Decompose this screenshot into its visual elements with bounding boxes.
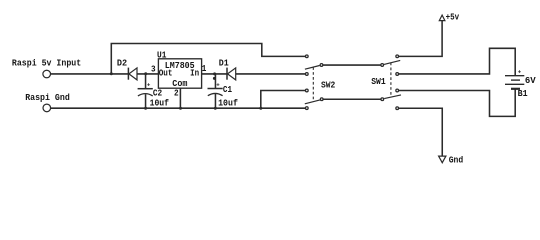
SW2 throw contact B1 bbox=[305, 89, 308, 92]
wire ground rail bbox=[51, 107, 305, 109]
switch SW1 bbox=[381, 55, 401, 110]
wire U1 In to D1 bbox=[202, 73, 227, 75]
switch SW2 bbox=[305, 55, 323, 109]
battery B1 bbox=[505, 76, 524, 89]
svg-text:10uf: 10uf bbox=[150, 97, 170, 108]
svg-text:C1: C1 bbox=[223, 84, 232, 95]
node C1 top junction bbox=[213, 72, 216, 75]
wire D1 to SW2 throw A2 bbox=[236, 73, 306, 75]
terminal J2 Raspi Gnd bbox=[43, 104, 51, 112]
SW2 lever A bbox=[305, 66, 320, 70]
svg-text:+5v: +5v bbox=[446, 12, 460, 23]
wire SW2 common A to SW1 common A bbox=[323, 64, 380, 66]
node rail branch junction bbox=[259, 107, 262, 110]
node C1 rail junction bbox=[214, 107, 217, 110]
svg-text:2: 2 bbox=[174, 87, 179, 98]
wire SW1 throw B2 to Gnd bbox=[399, 108, 442, 156]
svg-text:B1: B1 bbox=[518, 88, 528, 99]
diode D1 bbox=[227, 68, 236, 80]
wire SW2 common B to SW1 common B bbox=[323, 98, 380, 100]
capacitor C1 bbox=[208, 74, 223, 108]
svg-text:3: 3 bbox=[151, 63, 156, 74]
SW1 gang dashed link bbox=[390, 63, 392, 97]
SW2 lever B bbox=[305, 100, 320, 104]
SW2 throw contact A2 bbox=[305, 73, 308, 76]
SW1 common A bbox=[381, 64, 384, 67]
SW1 lever A bbox=[384, 60, 400, 64]
SW2 throw contact B2 bbox=[305, 107, 308, 110]
ic U1 box LM7805 bbox=[158, 59, 201, 88]
SW1 throw contact A2 bbox=[396, 73, 399, 76]
svg-text:In: In bbox=[190, 67, 199, 78]
wire top bypass rail bbox=[111, 44, 306, 57]
svg-text:D2: D2 bbox=[117, 57, 127, 68]
svg-text:Raspi 5v Input: Raspi 5v Input bbox=[12, 58, 81, 69]
svg-text:10uf: 10uf bbox=[218, 97, 238, 108]
node input riser junction bbox=[110, 72, 113, 75]
svg-text:Gnd: Gnd bbox=[449, 154, 464, 165]
svg-text:SW2: SW2 bbox=[321, 80, 335, 91]
wire D2 to U1 Out bbox=[137, 73, 158, 75]
node C2 top junction bbox=[144, 72, 147, 75]
wire SW1 throw A1 to +5v bbox=[399, 21, 442, 57]
power arrow +5v bbox=[439, 15, 445, 21]
wire input line bbox=[51, 73, 128, 75]
ground arrow Gnd bbox=[439, 156, 446, 163]
svg-text:D1: D1 bbox=[219, 57, 229, 68]
node stray dot below junction bbox=[213, 77, 216, 80]
capacitor C2 bbox=[138, 74, 153, 108]
svg-text:6V: 6V bbox=[525, 75, 536, 86]
SW1 throw contact B2 bbox=[396, 107, 399, 110]
wire riser to top rail bbox=[110, 44, 112, 74]
SW1 common B bbox=[381, 98, 384, 101]
wire rail branch to SW2 throw B1 bbox=[261, 91, 305, 109]
terminal J1 Raspi 5v Input bbox=[43, 70, 51, 78]
node C2 rail junction bbox=[144, 107, 147, 110]
SW1 throw contact B1 bbox=[396, 89, 399, 92]
SW1 throw contact A1 bbox=[396, 55, 399, 58]
svg-text:+: + bbox=[518, 69, 522, 76]
wire pin2 to ground rail bbox=[179, 88, 181, 108]
svg-text:Out: Out bbox=[159, 67, 173, 78]
wire battery minus loop to SW1 throw B1 bbox=[399, 89, 515, 116]
SW2 throw contact A1 bbox=[305, 55, 308, 58]
wire SW1 throw A2 to battery plus bbox=[399, 48, 515, 75]
SW2 common B bbox=[320, 98, 323, 101]
svg-text:Raspi Gnd: Raspi Gnd bbox=[25, 92, 70, 103]
node pin2 rail junction bbox=[179, 107, 182, 110]
svg-text:U1: U1 bbox=[157, 49, 167, 60]
SW2 common A bbox=[320, 64, 323, 67]
svg-text:+: + bbox=[147, 82, 151, 89]
SW2 gang dashed link bbox=[312, 67, 314, 102]
svg-text:SW1: SW1 bbox=[371, 76, 386, 87]
SW1 lever B bbox=[384, 95, 401, 99]
svg-text:1: 1 bbox=[202, 63, 207, 74]
diode D2 bbox=[128, 68, 137, 80]
svg-text:+: + bbox=[216, 82, 220, 89]
